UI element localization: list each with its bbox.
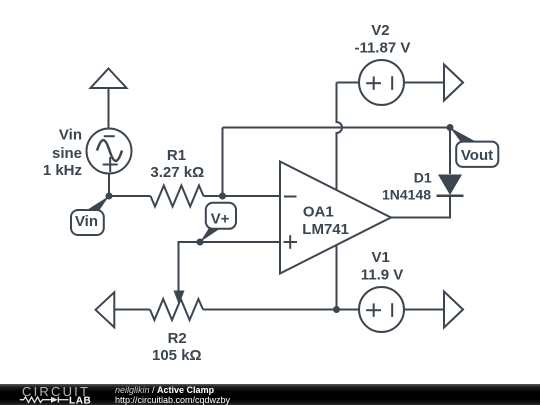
potentiometer R2 wiper arrowhead: [174, 291, 185, 306]
CircuitLab logo: [0, 384, 110, 405]
diode D1: [437, 175, 464, 196]
label OA1 name: [302, 204, 349, 238]
svg-text:R1: R1: [167, 147, 186, 164]
node label Vout: [450, 128, 498, 167]
port P2 (top right): [444, 65, 463, 101]
node label V+: [200, 203, 236, 242]
svg-text:-11.87 V: -11.87 V: [354, 39, 410, 56]
svg-text:Vin: Vin: [75, 213, 98, 230]
wire Vout node to diode D1 anode: [449, 128, 451, 175]
wire V1 right lead to port: [404, 309, 444, 311]
wire R2 left lead to port: [114, 309, 150, 311]
wire Vin node to R1: [109, 195, 151, 197]
svg-text:R2: R2: [168, 330, 187, 347]
resistor R1: [151, 186, 204, 207]
svg-text:3.27 kΩ: 3.27 kΩ: [150, 164, 204, 181]
junction dot at V1/R2 node: [333, 306, 340, 313]
svg-text:D1: D1: [414, 170, 432, 186]
svg-text:105 kΩ: 105 kΩ: [152, 347, 202, 364]
footer credit text: [115, 386, 230, 404]
wire V1 left lead to supply node: [337, 309, 360, 311]
svg-text:V2: V2: [371, 22, 389, 39]
junction dot at Vout node: [447, 124, 454, 131]
wire Vin source to node: [108, 174, 110, 197]
wire R2 to V1 node: [203, 309, 337, 311]
label V1 value: [361, 249, 404, 283]
wire V2 right lead to port: [404, 82, 444, 84]
junction dot node A: [219, 193, 226, 200]
svg-text:LAB: LAB: [69, 395, 91, 405]
wire port P1 to Vin source: [108, 88, 110, 129]
svg-text:1N4148: 1N4148: [382, 186, 431, 202]
voltage source V1: [359, 287, 404, 332]
svg-text:LM741: LM741: [302, 221, 349, 238]
port P3 (bottom right): [444, 292, 463, 328]
wire op-amp noninverting input to R2 wiper: [179, 242, 281, 291]
svg-text:Vin: Vin: [59, 127, 82, 144]
wire node A up to feedback rail: [222, 128, 224, 197]
svg-text:V1: V1: [372, 249, 390, 266]
label D1 name/value: [382, 170, 432, 203]
potentiometer R2: [150, 299, 203, 320]
wire R1 to op-amp inverting input: [204, 195, 281, 197]
junction dot at Vin node: [106, 193, 113, 200]
svg-text:Vout: Vout: [461, 147, 493, 164]
op-amp OA1: [280, 162, 391, 274]
wire diode D1 cathode to op-amp output: [391, 196, 450, 218]
svg-text:11.9 V: 11.9 V: [361, 266, 404, 283]
svg-text:sine: sine: [52, 145, 82, 162]
wire V2 left lead: [337, 82, 360, 84]
label Vin source name/value: [43, 127, 82, 179]
wire feedback rail to Vout node: [223, 127, 451, 129]
footer bar: [0, 384, 540, 405]
svg-text:OA1: OA1: [303, 204, 334, 221]
junction dot at V+ node: [197, 239, 204, 246]
wire op-amp V- supply pin to V1 node: [336, 245, 338, 310]
label R1 value: [150, 147, 204, 181]
node label Vin: [71, 196, 109, 235]
voltage source Vin (sine): [87, 129, 132, 174]
label R2 value: [152, 330, 202, 364]
wire V2 to op-amp V+ supply pin (with hop): [337, 83, 343, 191]
svg-text:1 kHz: 1 kHz: [43, 162, 82, 179]
port P4 (bottom left): [96, 292, 115, 327]
svg-text:V+: V+: [211, 210, 230, 227]
port P1 (input arrow, top-left): [91, 69, 127, 89]
voltage source V2: [359, 60, 404, 105]
label V2 value: [354, 22, 410, 56]
